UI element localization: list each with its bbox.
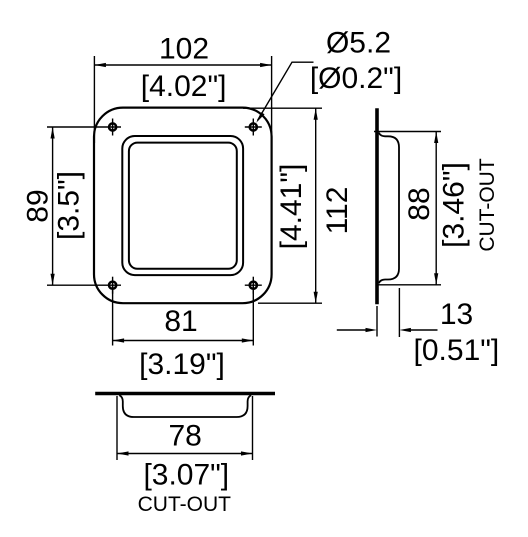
dim 88: dimension line xyxy=(435,132,437,285)
dim 89: top arrow xyxy=(51,127,55,139)
svg-text:89: 89 xyxy=(22,189,55,222)
side view: flange edge-on line xyxy=(375,108,379,304)
dim 102: extension lines xyxy=(93,56,95,143)
svg-text:[3.5"]: [3.5"] xyxy=(53,171,86,240)
front view: dish outer edge xyxy=(122,136,243,275)
dim 13: extension lines xyxy=(376,306,378,337)
side view: dish profile xyxy=(379,133,399,284)
svg-text:CUT-OUT: CUT-OUT xyxy=(476,158,499,251)
bottom view: flange edge-on line xyxy=(95,392,275,395)
svg-text:[3.46"]: [3.46"] xyxy=(438,162,471,248)
dim 102: right arrow xyxy=(260,63,272,67)
dim 112: top arrow xyxy=(314,108,318,120)
dim 81: right arrow xyxy=(242,338,254,342)
dim 89: dimension line xyxy=(52,127,54,285)
screw hole bottom-right xyxy=(245,277,262,294)
svg-text:13: 13 xyxy=(440,298,473,331)
svg-text:88: 88 xyxy=(403,187,436,220)
svg-text:[4.41"]: [4.41"] xyxy=(275,164,308,250)
screw hole bottom-left xyxy=(109,277,116,294)
dim 88: bottom arrow xyxy=(434,273,438,285)
leader arrow xyxy=(256,112,264,123)
dim 81: left arrow xyxy=(113,338,125,342)
dim 89: bottom arrow xyxy=(51,274,55,286)
svg-text:[Ø0.2"]: [Ø0.2"] xyxy=(310,62,402,95)
dim 112: extension lines xyxy=(243,107,322,109)
svg-text:[4.02"]: [4.02"] xyxy=(141,70,227,103)
dim 102: dimension line xyxy=(94,64,271,66)
screw hole top-left xyxy=(109,119,116,136)
dim 81: extension lines xyxy=(112,285,114,345)
dim 88: extension lines xyxy=(374,131,441,133)
svg-text:CUT-OUT: CUT-OUT xyxy=(138,493,231,516)
dim 13: right line xyxy=(407,329,438,331)
dim 78: extension lines xyxy=(116,396,118,460)
dim 13: left line xyxy=(337,329,369,331)
svg-text:78: 78 xyxy=(169,420,202,453)
dim 13: left arrow xyxy=(366,328,378,332)
svg-text:[3.07"]: [3.07"] xyxy=(143,459,229,492)
dim 112: bottom arrow xyxy=(314,292,318,304)
screw hole top-right xyxy=(245,119,262,136)
front view: dish inner edge xyxy=(129,143,237,269)
leader line for hole diameter xyxy=(258,62,314,120)
dim 78: left arrow xyxy=(117,451,129,455)
svg-text:112: 112 xyxy=(321,187,354,235)
front view: flange outline xyxy=(94,108,272,304)
dim 13: right arrow xyxy=(399,328,411,332)
dim 78: right arrow xyxy=(241,451,253,455)
dim 88: top arrow xyxy=(434,132,438,144)
svg-text:Ø5.2: Ø5.2 xyxy=(326,27,391,60)
dim 102: left arrow xyxy=(94,63,106,67)
svg-text:102: 102 xyxy=(159,33,209,66)
bottom view: dish profile xyxy=(119,395,251,417)
svg-text:[0.51"]: [0.51"] xyxy=(414,334,500,367)
dim 78: dimension line xyxy=(117,453,253,455)
svg-text:[3.19"]: [3.19"] xyxy=(139,348,225,381)
svg-text:81: 81 xyxy=(164,305,197,338)
dim 112: dimension line xyxy=(315,108,317,303)
dim 89: extension lines xyxy=(47,126,121,128)
dim 81: dimension line xyxy=(113,340,254,342)
